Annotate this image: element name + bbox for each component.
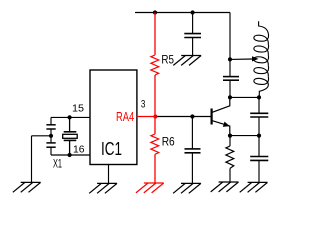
resistor R6 xyxy=(151,134,159,154)
wire: load cap bottom to pin16 wire xyxy=(50,147,52,155)
emitter arrow xyxy=(223,122,230,127)
wire: IC1 ground stem xyxy=(108,165,110,184)
capacitor C5 (feedback divider bottom) xyxy=(250,157,268,161)
svg-text:16: 16 xyxy=(73,145,85,156)
resistor R7 (emitter resistor) xyxy=(226,146,234,168)
ground (under C5) xyxy=(240,182,268,192)
collector lead xyxy=(212,97,230,112)
wire: left ground column xyxy=(31,136,33,183)
wire: tank column upper segment to cap xyxy=(229,59,231,76)
wire: between load caps xyxy=(50,129,52,143)
ground (under IC1) xyxy=(89,183,117,193)
emitter lead xyxy=(212,121,230,136)
inductor L1 (coil with tap arrow) xyxy=(254,21,269,97)
node: junction on rail at bypass cap xyxy=(191,10,195,14)
svg-text:15: 15 xyxy=(72,104,84,115)
wire: tank cap to collector node xyxy=(229,80,231,97)
crystal X1 xyxy=(63,117,77,155)
wire: bypass cap to ground xyxy=(192,38,194,56)
wire: base cap to ground xyxy=(191,153,193,184)
ground (red, under R6) xyxy=(136,183,164,193)
node: crystal bottom junction xyxy=(68,153,72,157)
wire: coil bottom node down to tank cap C4 xyxy=(258,97,260,113)
wire: red bus between RA4 node and R6 xyxy=(154,117,156,135)
wire: RA4 pin wire from IC1 xyxy=(137,116,155,118)
wire: pin 16 wire xyxy=(51,154,90,156)
node: junction at coil bottom xyxy=(257,95,261,99)
wire: base cap drop xyxy=(191,117,193,149)
ground (under R7) xyxy=(211,182,239,192)
node: collector node junction xyxy=(228,95,232,99)
wire: collector node to coil-bottom column xyxy=(230,96,259,98)
base bar xyxy=(211,109,213,125)
wire: tap from tank column to coil xyxy=(230,58,252,60)
wire: top power rail xyxy=(135,12,230,14)
wire: bypass cap drop from rail xyxy=(192,13,194,34)
op-amp/IC box IC1 xyxy=(90,70,137,165)
wire: red bus R6 to ground xyxy=(154,154,156,183)
wire: C4 to emitter node xyxy=(258,117,260,136)
wire: emitter node to R7 xyxy=(229,136,231,146)
ground (under base cap) xyxy=(173,183,201,193)
wire: divider mid down to C5 xyxy=(258,136,260,157)
wire: red bus between R5 and RA4 node xyxy=(154,75,156,117)
node: junction base / base cap xyxy=(190,114,194,118)
capacitor C3 (tank series cap) xyxy=(223,77,239,81)
wire: base wire from RA4 node to Q1 xyxy=(156,116,211,118)
node: junction on rail at red bus xyxy=(153,10,157,14)
node: junction at tap xyxy=(228,57,232,61)
svg-text:RA4: RA4 xyxy=(116,109,134,124)
node: load cap midpoint xyxy=(49,134,53,138)
ground (left, crystal caps) xyxy=(13,182,41,192)
capacitor C7 (load cap upper) xyxy=(46,125,55,129)
svg-text:3: 3 xyxy=(141,99,146,111)
wire: C5 to ground xyxy=(258,160,260,182)
capacitor C6 (base to ground) xyxy=(185,149,201,153)
node: RA4 junction (red) xyxy=(153,114,157,118)
wire: cap midpoint to ground column xyxy=(32,135,52,137)
resistor R5 xyxy=(151,55,159,75)
svg-text:R6: R6 xyxy=(162,134,175,148)
node: crystal top junction xyxy=(68,115,72,119)
wire: emitter wire between transistor and divider xyxy=(230,135,259,137)
wire: red supply bus top segment xyxy=(154,13,156,56)
node: emitter-side junction right xyxy=(257,134,261,138)
wire: R7 to ground xyxy=(229,168,231,182)
capacitor C2 (rail bypass) xyxy=(184,34,201,38)
svg-text:R5: R5 xyxy=(161,52,174,66)
transistor Q1 (NPN) xyxy=(212,97,230,135)
capacitor C4 (feedback divider top) xyxy=(250,113,268,117)
svg-text:X1: X1 xyxy=(53,159,62,171)
arrow head of coil tap xyxy=(252,56,259,61)
wire: load cap column top xyxy=(50,117,52,124)
wire: rail corner down to tank column xyxy=(229,13,231,60)
ground (under bypass cap) xyxy=(173,56,201,66)
node: emitter node junction xyxy=(228,134,232,138)
svg-text:IC1: IC1 xyxy=(101,138,122,159)
capacitor C8 (load cap lower) xyxy=(46,143,55,147)
wire: pin 15 wire xyxy=(51,116,90,118)
